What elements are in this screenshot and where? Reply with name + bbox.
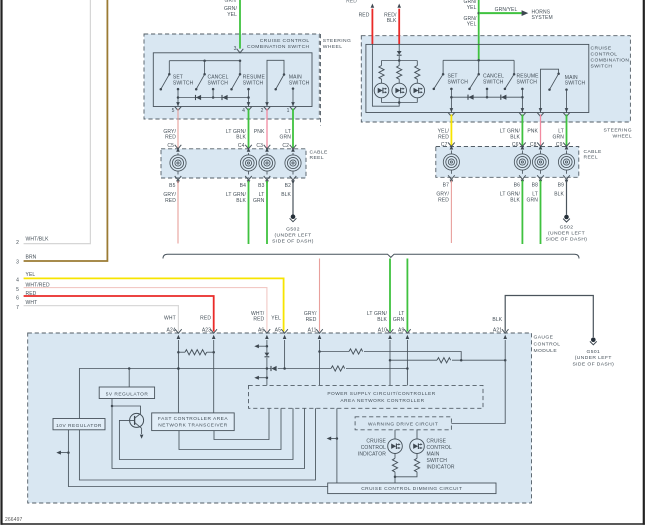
connector C9 xyxy=(563,143,570,150)
svg-text:GAUGE: GAUGE xyxy=(534,335,554,341)
wire LT GRN below B3 xyxy=(253,181,267,244)
svg-text:AREA NETWORK CONTROLLER: AREA NETWORK CONTROLLER xyxy=(340,398,424,404)
5V regulator output node xyxy=(111,399,141,414)
svg-text:CRUISE: CRUISE xyxy=(366,438,386,444)
svg-text:B7: B7 xyxy=(443,182,449,188)
wire GRN/YEL into right switch xyxy=(464,0,480,60)
svg-text:RED: RED xyxy=(346,0,357,5)
svg-text:SWITCH: SWITCH xyxy=(565,81,586,87)
ground G502 right xyxy=(546,215,588,243)
switch CANCEL left xyxy=(195,61,229,99)
svg-text:WHEEL: WHEEL xyxy=(612,133,632,139)
pin 3 connector xyxy=(237,49,244,53)
svg-text:YEL: YEL xyxy=(26,272,36,278)
svg-text:BLK: BLK xyxy=(236,198,246,204)
svg-text:INDICATOR: INDICATOR xyxy=(427,464,455,470)
svg-text:GRN: GRN xyxy=(527,197,539,203)
svg-text:RED: RED xyxy=(165,198,176,204)
pin 1 connector xyxy=(287,102,297,114)
connector B4 xyxy=(240,176,252,189)
pin C9 connector xyxy=(563,108,570,116)
resistor illumination branch 2 xyxy=(397,61,402,84)
wire A5 internal xyxy=(283,344,286,370)
svg-text:SYSTEM: SYSTEM xyxy=(532,15,553,21)
svg-text:YEL: YEL xyxy=(467,5,477,11)
connector B9 xyxy=(558,175,570,188)
svg-text:BLK: BLK xyxy=(387,18,397,24)
connector C2 xyxy=(290,145,297,152)
svg-text:WARNING DRIVE CIRCUIT: WARNING DRIVE CIRCUIT xyxy=(368,421,438,427)
svg-text:CONTROL: CONTROL xyxy=(534,341,561,347)
LED illumination 1 xyxy=(374,83,389,102)
svg-text:GRN: GRN xyxy=(225,0,237,4)
svg-text:C4: C4 xyxy=(238,143,245,149)
svg-text:BLK: BLK xyxy=(377,317,387,323)
pin 5 connector xyxy=(172,102,182,114)
switch SET right xyxy=(433,60,469,112)
svg-text:B6: B6 xyxy=(514,182,520,188)
wire GRN/YEL branch to horns system xyxy=(479,7,553,21)
connector B8 xyxy=(532,175,544,188)
pin C6 connector xyxy=(519,108,526,116)
svg-text:STEERING: STEERING xyxy=(604,128,632,134)
5V regulator input xyxy=(128,369,130,388)
wire LT GRN/BLK C6 xyxy=(500,115,523,148)
pin A10 xyxy=(378,327,394,343)
LED illumination 3 xyxy=(410,83,425,102)
coil B9 cable reel xyxy=(558,151,574,174)
svg-text:BLK: BLK xyxy=(236,135,246,141)
gauge control module dashed box xyxy=(28,333,561,503)
pin A24 xyxy=(164,315,182,343)
svg-text:2: 2 xyxy=(261,108,264,114)
svg-text:SWITCH: SWITCH xyxy=(289,80,310,86)
wire 10V output nested rail xyxy=(79,408,315,480)
wire PNK pin2 to C3 xyxy=(254,109,267,150)
svg-text:5V REGULATOR: 5V REGULATOR xyxy=(106,392,149,398)
wire 5V output nested rail xyxy=(112,406,305,469)
connector C8 xyxy=(537,143,544,150)
svg-text:A23: A23 xyxy=(202,327,211,333)
svg-text:10V REGULATOR: 10V REGULATOR xyxy=(56,423,102,429)
connector B5 xyxy=(169,176,181,189)
svg-text:YEL: YEL xyxy=(271,315,281,321)
wire rail A11 with resistor R2 xyxy=(320,349,462,360)
diode rail right switch xyxy=(451,95,522,100)
wire BLK pin A21 to ground xyxy=(492,296,593,338)
cable reel right dashed box xyxy=(436,147,602,178)
coil B6 cable reel xyxy=(514,151,530,174)
switch MAIN left xyxy=(267,60,310,106)
svg-text:CABLE: CABLE xyxy=(310,149,328,155)
svg-text:RED: RED xyxy=(438,134,449,140)
connector C5 xyxy=(175,145,182,152)
5V regulator box xyxy=(99,387,154,399)
wire A11 internal xyxy=(318,344,321,386)
svg-text:B5: B5 xyxy=(169,183,175,189)
svg-text:C3: C3 xyxy=(256,143,263,149)
svg-text:BLK: BLK xyxy=(510,134,520,140)
svg-text:(UNDER LEFT: (UNDER LEFT xyxy=(274,233,311,239)
switch RESUME right xyxy=(504,60,540,112)
resistor R6 below main switch indicator LED xyxy=(395,454,420,477)
wire A23 internal xyxy=(213,344,215,413)
svg-text:3: 3 xyxy=(234,46,237,52)
resistor R4 on rail xyxy=(331,366,345,371)
svg-text:WHT: WHT xyxy=(164,315,176,321)
svg-text:C5: C5 xyxy=(167,143,174,149)
pin A9 xyxy=(398,327,411,343)
wire A10 internal xyxy=(389,344,392,386)
svg-text:4: 4 xyxy=(16,277,19,283)
wire YEL/RED C7 xyxy=(438,115,452,148)
switch MAIN right xyxy=(541,69,586,112)
ground G501 xyxy=(572,338,614,368)
svg-text:BRN: BRN xyxy=(26,254,37,260)
svg-text:NETWORK TRANSCEIVER: NETWORK TRANSCEIVER xyxy=(158,423,227,429)
svg-text:SIDE OF DASH): SIDE OF DASH) xyxy=(546,237,588,243)
svg-text:BLK: BLK xyxy=(281,192,291,198)
svg-text:(UNDER LEFT: (UNDER LEFT xyxy=(575,355,612,361)
svg-text:G502: G502 xyxy=(286,226,300,232)
svg-text:7: 7 xyxy=(16,305,19,311)
svg-text:YEL: YEL xyxy=(467,22,477,28)
resistor R5 below indicator LED xyxy=(392,454,397,484)
svg-text:SWITCH: SWITCH xyxy=(427,458,448,464)
svg-text:SIDE OF DASH): SIDE OF DASH) xyxy=(572,361,614,367)
wire GRY/RED below B5 xyxy=(163,181,178,244)
svg-text:B8: B8 xyxy=(532,182,538,188)
svg-text:GRN: GRN xyxy=(553,134,565,140)
svg-text:RED: RED xyxy=(165,135,176,141)
wire top rail right switch xyxy=(443,59,514,62)
cable reel left dashed box xyxy=(161,149,328,178)
svg-text:B2: B2 xyxy=(285,183,291,189)
svg-text:1: 1 xyxy=(287,108,290,114)
coil B4 cable reel xyxy=(240,153,256,175)
svg-text:GRN: GRN xyxy=(253,198,265,204)
svg-text:SWITCH: SWITCH xyxy=(591,63,613,69)
connector B6 xyxy=(514,175,526,188)
pin C7 connector xyxy=(448,108,455,116)
svg-text:CONTROL: CONTROL xyxy=(591,51,618,57)
svg-text:CRUISE: CRUISE xyxy=(427,438,447,444)
pin A21 xyxy=(493,327,509,343)
pin C8 connector xyxy=(537,108,544,116)
cruise control combination switch left dashed box xyxy=(144,34,319,119)
wire GRN/YEL into pin 3 xyxy=(224,0,240,52)
svg-text:SIDE OF DASH): SIDE OF DASH) xyxy=(272,239,314,245)
harness brace xyxy=(163,254,579,258)
coil B2 cable reel xyxy=(285,153,301,175)
wire LT GRN/BLK to pin A10 xyxy=(367,259,390,332)
svg-text:RED: RED xyxy=(306,317,317,323)
svg-text:6: 6 xyxy=(16,296,19,302)
10V regulator box xyxy=(53,419,105,430)
svg-text:CRUISE: CRUISE xyxy=(591,45,612,51)
svg-text:A21: A21 xyxy=(493,327,502,333)
combination switch right inner box xyxy=(366,44,589,112)
svg-text:(UNDER LEFT: (UNDER LEFT xyxy=(548,231,585,237)
resistor R1 between A24 and A23 xyxy=(178,350,215,355)
LED cruise control main switch indicator xyxy=(410,430,455,471)
svg-text:RED: RED xyxy=(200,315,211,321)
fast controller area network transceiver box xyxy=(152,413,235,431)
switch SET left xyxy=(160,61,194,107)
resistor illumination branch 3 xyxy=(415,61,420,84)
wire WHT circuit 7 to pin A24 xyxy=(16,300,178,331)
wire A24 internal xyxy=(177,344,180,413)
svg-text:B9: B9 xyxy=(558,182,564,188)
wire LT GRN below B8 xyxy=(527,181,541,245)
svg-text:A5: A5 xyxy=(275,327,281,333)
svg-text:SWITCH: SWITCH xyxy=(483,79,504,85)
svg-text:A11: A11 xyxy=(308,327,317,333)
pin A6 xyxy=(251,311,270,344)
wire BLK below B9 xyxy=(554,181,566,215)
svg-text:PNK: PNK xyxy=(254,129,265,135)
svg-text:GRN: GRN xyxy=(280,135,292,141)
wire LT GRN/BLK below B4 xyxy=(226,181,249,244)
svg-text:RED: RED xyxy=(359,12,370,18)
svg-text:A24: A24 xyxy=(167,327,176,333)
svg-text:5: 5 xyxy=(172,108,175,114)
connector B7 xyxy=(443,175,455,188)
svg-text:BLK: BLK xyxy=(554,192,564,198)
steering wheel label right xyxy=(604,128,632,140)
svg-text:SWITCH: SWITCH xyxy=(243,80,264,86)
wire RED internal to LED cathode rail xyxy=(372,44,399,106)
coil B5 cable reel xyxy=(170,153,186,175)
pin 4 connector xyxy=(242,102,252,114)
wire A6 internal xyxy=(254,344,268,386)
diode D3 feed from RED/BLK xyxy=(397,44,402,60)
wire RED into right switch xyxy=(359,4,375,45)
wire WHT/RED circuit 5 to pin A6 xyxy=(16,282,267,331)
connector C3 xyxy=(264,145,271,152)
svg-text:FAST CONTROLLER AREA: FAST CONTROLLER AREA xyxy=(158,416,228,422)
svg-text:RED: RED xyxy=(253,317,264,323)
wire A9 internal xyxy=(406,344,409,386)
wire LT GRN/BLK below B6 xyxy=(500,181,523,245)
cruise control dimming circuit box xyxy=(328,483,496,494)
svg-text:REEL: REEL xyxy=(310,155,325,161)
wire warning drop to dimming circuit xyxy=(327,408,339,483)
coil B3 cable reel xyxy=(259,153,275,175)
svg-text:G501: G501 xyxy=(586,349,600,355)
wire YEL circuit 4 to pin A5 xyxy=(16,272,284,332)
svg-text:BLK: BLK xyxy=(510,197,520,203)
svg-text:4: 4 xyxy=(242,108,245,114)
svg-text:PNK: PNK xyxy=(527,129,538,135)
svg-text:SWITCH: SWITCH xyxy=(448,79,469,85)
wire BRN circuit 3 xyxy=(16,0,107,266)
svg-text:GRN: GRN xyxy=(393,317,405,323)
switch RESUME left xyxy=(230,61,265,107)
svg-text:A9: A9 xyxy=(398,327,404,333)
connector C6 xyxy=(519,143,526,150)
svg-text:MAIN: MAIN xyxy=(427,451,440,457)
combination switch left inner box xyxy=(153,53,312,107)
diode D5 on A6 wire xyxy=(265,353,270,357)
svg-text:CRUISE CONTROL DIMMING CIRCUIT: CRUISE CONTROL DIMMING CIRCUIT xyxy=(361,486,462,492)
connector C4 xyxy=(245,145,252,152)
svg-text:B4: B4 xyxy=(240,183,246,189)
wire LED top rail xyxy=(382,59,418,62)
transistor Q1 xyxy=(130,413,144,438)
svg-text:SWITCH: SWITCH xyxy=(517,79,538,85)
svg-text:MODULE: MODULE xyxy=(534,348,558,354)
warning drive circuit dashed box xyxy=(355,417,451,430)
coil B8 cable reel xyxy=(532,151,548,174)
wire transistor base nested rail xyxy=(119,408,293,459)
svg-text:CRUISE CONTROL: CRUISE CONTROL xyxy=(260,38,310,44)
svg-text:YEL: YEL xyxy=(227,12,237,18)
svg-text:CABLE: CABLE xyxy=(584,149,602,155)
svg-text:STEERING: STEERING xyxy=(323,38,351,44)
wire RED/BLK into right switch xyxy=(384,4,401,45)
wire LED bottom rail xyxy=(382,101,418,104)
diode rail left switch xyxy=(178,95,249,100)
wire transceiver nested rail 1 xyxy=(214,408,269,439)
wire rail A10 with resistor R3 xyxy=(390,358,506,363)
svg-text:266497: 266497 xyxy=(5,517,23,523)
wire PNK C8 xyxy=(527,115,540,148)
connector B3 xyxy=(258,176,270,189)
wire GRY/RED pin5 to C5 xyxy=(163,109,178,150)
wire BLK below B2 xyxy=(281,181,293,215)
LED cruise control indicator xyxy=(358,430,402,458)
svg-text:3: 3 xyxy=(16,260,19,266)
wire top rail left switch xyxy=(169,59,241,62)
pin A5 xyxy=(271,315,288,343)
power supply circuit dashed box xyxy=(249,385,484,408)
switch CANCEL right xyxy=(468,60,504,98)
svg-text:INDICATOR: INDICATOR xyxy=(358,451,386,457)
steering wheel separator left xyxy=(321,34,352,126)
svg-text:2: 2 xyxy=(16,240,19,246)
svg-text:COMBINATION: COMBINATION xyxy=(591,57,630,63)
svg-text:CONTROL: CONTROL xyxy=(361,445,386,451)
pin 2 connector xyxy=(261,102,271,114)
cruise control combination switch right dashed box xyxy=(361,36,630,122)
wire main rail xyxy=(79,367,407,418)
svg-text:C2: C2 xyxy=(282,143,289,149)
wire A21 internal to warning circuit xyxy=(451,344,505,424)
svg-text:A10: A10 xyxy=(378,327,387,333)
svg-text:RED: RED xyxy=(438,197,449,203)
coil B7 cable reel xyxy=(443,151,459,174)
wire WHT/BLK circuit 2 xyxy=(16,0,90,246)
resistor illumination branch 1 xyxy=(379,61,384,84)
wire LT GRN C9 xyxy=(553,115,567,148)
connector C7 xyxy=(448,143,455,150)
svg-text:A6: A6 xyxy=(258,327,264,333)
wire LT GRN/BLK pin4 to C4 xyxy=(226,109,249,150)
wire LT GRN pin1 to C2 xyxy=(280,109,293,150)
svg-text:B3: B3 xyxy=(258,183,264,189)
pin A11 xyxy=(308,327,323,343)
wire GRY/RED to pin A11 xyxy=(304,259,320,332)
wire 10V output to dimming circuit xyxy=(56,430,327,487)
wire GRY/RED below B7 xyxy=(436,181,451,244)
svg-text:BLK: BLK xyxy=(492,317,502,323)
svg-text:SWITCH: SWITCH xyxy=(208,80,229,86)
wire LT GRN to pin A9 xyxy=(393,259,407,332)
LED illumination 2 xyxy=(392,83,407,102)
wire RED circuit 6 to pin A23 xyxy=(16,291,214,331)
svg-text:GRN/YEL: GRN/YEL xyxy=(495,7,518,13)
svg-text:REEL: REEL xyxy=(584,155,599,161)
svg-text:WHEEL: WHEEL xyxy=(323,44,343,50)
svg-text:CONTROL: CONTROL xyxy=(427,445,452,451)
diode D4 on rail xyxy=(271,366,277,371)
pin A23 xyxy=(200,315,217,343)
svg-text:WHT/BLK: WHT/BLK xyxy=(26,236,50,242)
connector B2 xyxy=(285,176,297,189)
svg-text:COMBINATION SWITCH: COMBINATION SWITCH xyxy=(247,44,310,50)
svg-text:G502: G502 xyxy=(560,224,574,230)
ground G502 left xyxy=(272,214,314,244)
svg-text:POWER SUPPLY CIRCUIT/CONTROLLE: POWER SUPPLY CIRCUIT/CONTROLLER xyxy=(327,391,435,397)
wire transceiver nested rail 2 xyxy=(179,408,281,449)
svg-text:5: 5 xyxy=(16,287,19,293)
svg-text:SWITCH: SWITCH xyxy=(173,80,194,86)
